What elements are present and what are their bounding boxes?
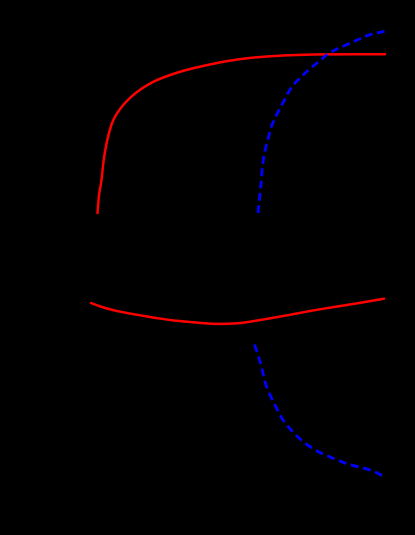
bottom panel blue dashed curve (255, 345, 383, 476)
top panel red solid curve (98, 54, 386, 213)
top panel blue dashed curve (258, 31, 385, 213)
bottom panel red solid curve (91, 299, 384, 324)
